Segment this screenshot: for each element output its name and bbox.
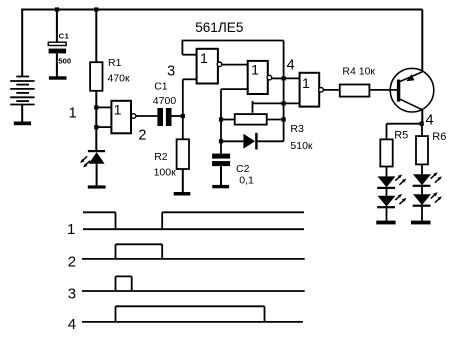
svg-text:C1: C1: [59, 32, 70, 41]
resistor R5: [380, 124, 392, 167]
label R1: [108, 57, 122, 69]
label R6: [432, 131, 446, 143]
wire: gate 1 upper input: [96, 106, 111, 108]
junction: R1 line / gate input b: [94, 125, 98, 129]
label 510к: [290, 140, 313, 152]
resistor R3: [221, 114, 284, 125]
timing label 3: [68, 286, 76, 303]
diode VD2: [221, 133, 284, 150]
svg-text:4: 4: [425, 112, 433, 128]
junction: node 4: [282, 76, 286, 80]
label C2: [236, 163, 250, 175]
wire: gate 1 output to C1(4700): [136, 115, 158, 117]
IC label 561ЛЕ5: [195, 20, 243, 35]
svg-text:C2: C2: [236, 163, 250, 175]
wire: gate A output to gate B: [222, 64, 248, 66]
svg-text:510к: 510к: [290, 140, 313, 152]
label R3: [290, 123, 304, 135]
label 4700: [153, 95, 177, 107]
ground: C2: [212, 185, 229, 188]
svg-text:R4 10к: R4 10к: [342, 66, 375, 78]
svg-text:1: 1: [114, 103, 122, 119]
svg-text:1: 1: [302, 76, 310, 92]
svg-text:100к: 100к: [154, 166, 177, 178]
wire: gate 1 lower input: [96, 126, 111, 128]
wire: gate C lower input / R3 tap: [253, 101, 300, 113]
label R5: [394, 129, 408, 141]
LED VD5: [413, 164, 442, 187]
gate U1.3 (middle NOR): [248, 61, 272, 94]
capacitor C1 (4700): [157, 108, 182, 126]
wire: node 3 vertical (gate A lower input to R2): [183, 79, 197, 139]
junction: top rail / C1: [55, 7, 59, 11]
junction: C1(4700) / node 3 line: [181, 114, 185, 118]
svg-text:1: 1: [69, 106, 77, 122]
svg-text:1: 1: [251, 63, 259, 79]
label 100к: [154, 166, 177, 178]
wire: gate B lower input branch: [221, 89, 248, 154]
timing label 2: [68, 254, 76, 271]
svg-text:1: 1: [67, 221, 75, 238]
node label 2: [138, 128, 146, 144]
svg-text:500: 500: [58, 56, 71, 65]
wire: feedback loop (top of gates): [182, 41, 284, 142]
wire: emitter node to R5: [387, 123, 423, 125]
junction: top rail / R1: [94, 7, 98, 11]
capacitor C1 (500): [48, 10, 66, 77]
timing label 1: [67, 221, 75, 238]
svg-text:0,1: 0,1: [239, 174, 254, 186]
svg-text:R5: R5: [394, 129, 408, 141]
node label 4 (emitter): [425, 112, 433, 128]
svg-text:3: 3: [68, 286, 76, 303]
battery GB1: [10, 10, 34, 122]
svg-text:4: 4: [68, 316, 76, 333]
label 470к: [108, 73, 131, 85]
ground: C1: [49, 76, 67, 79]
timing trace 3: [82, 276, 305, 291]
node label 4: [287, 57, 295, 73]
ground: VD4: [376, 221, 395, 225]
resistor R4: [340, 85, 397, 97]
wire: +V top rail: [21, 9, 422, 11]
svg-text:C1: C1: [154, 81, 168, 93]
label C1: [59, 32, 70, 41]
ground: R2: [174, 192, 191, 196]
transistor VT1: [390, 10, 434, 124]
label 500: [58, 56, 71, 65]
node label 3: [167, 64, 175, 80]
junction: emitter node 4: [420, 122, 424, 126]
svg-text:R1: R1: [108, 57, 122, 69]
junction: gate C lower input / feedback line: [282, 101, 286, 105]
resistor R1: [90, 10, 102, 151]
svg-text:470к: 470к: [108, 73, 131, 85]
label C1 (4700): [154, 81, 168, 93]
gate U1.2 (NOR element, node 3 input): [197, 49, 222, 84]
wire: VD3 to VD4: [386, 189, 388, 196]
timing label 4: [68, 316, 76, 333]
wire: gate C upper input: [284, 77, 300, 79]
ground: VD6: [411, 221, 431, 225]
timing trace 2: [82, 244, 305, 259]
wire: VD5 to VD6: [421, 187, 423, 194]
svg-text:2: 2: [68, 254, 76, 271]
label 0,1: [239, 174, 254, 186]
svg-text:4: 4: [287, 57, 295, 73]
junction: R3 right: [282, 117, 286, 121]
gate U1.1 (NOR element 1): [111, 101, 136, 134]
LED VD1 (IR emitter at gate input): [80, 150, 105, 186]
label R4 10к: [342, 66, 375, 78]
ground: battery: [14, 122, 31, 126]
svg-text:2: 2: [138, 128, 146, 144]
svg-text:R3: R3: [290, 123, 304, 135]
LED VD6: [413, 192, 442, 221]
svg-text:561ЛЕ5: 561ЛЕ5: [195, 20, 243, 35]
LED VD3: [377, 167, 406, 190]
svg-text:1: 1: [200, 51, 208, 67]
node label 1: [69, 106, 77, 122]
junction: diode left / C2: [219, 139, 223, 143]
resistor R2: [177, 139, 189, 192]
timing trace 1: [83, 212, 304, 229]
ground: VD1: [88, 185, 106, 188]
svg-text:3: 3: [167, 64, 175, 80]
timing trace 4: [82, 306, 303, 322]
svg-text:4700: 4700: [153, 95, 177, 107]
wire: gate B output to node 4: [272, 77, 284, 79]
resistor R6: [416, 124, 428, 165]
junction: R3 left: [219, 117, 223, 121]
gate U1.4 (output NOR): [300, 73, 324, 107]
wire: gate C output to R4: [323, 89, 340, 91]
LED VD4: [377, 194, 406, 221]
capacitor C2: [212, 154, 230, 186]
svg-text:R6: R6: [432, 131, 446, 143]
junction: R1 line / gate input a: [94, 105, 98, 109]
svg-text:R2: R2: [154, 151, 168, 163]
label R2: [154, 151, 168, 163]
